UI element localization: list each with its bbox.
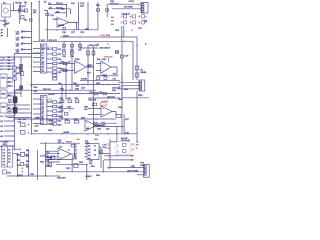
wire y93.6 long — [33, 93, 120, 95]
svg-text:R50 103: R50 103 — [43, 89, 51, 91]
dark blob Q2 — [13, 107, 17, 113]
resistor mid2 — [63, 69, 67, 71]
bottom-right component matrix box — [116, 142, 130, 155]
junction J1 — [13, 10, 15, 12]
svg-text:GND: GND — [138, 95, 143, 97]
wire x7.5 — [7, 28, 9, 37]
wire x72 bottom — [71, 160, 73, 172]
junction J73 — [145, 16, 146, 17]
wire y75.8 — [96, 75, 117, 77]
svg-text:GD: GD — [47, 165, 51, 167]
resistor right x137 b — [135, 73, 139, 77]
matrix cell row2 col1 — [121, 21, 127, 25]
wire y12.8 — [54, 12, 66, 14]
wire net rows left bottom — [4, 116, 14, 146]
small resistor boxes scattered — [18, 9, 138, 168]
junction J19 — [136, 45, 138, 47]
junction J102 — [39, 41, 40, 42]
IC8 right wires — [99, 147, 110, 168]
op-amp U2 mid-left — [75, 61, 87, 74]
IC2 box — [41, 96, 47, 125]
IC2 label box — [48, 99, 51, 102]
junction J104 — [107, 43, 108, 44]
junction J29 — [121, 85, 123, 87]
capacitor grid d — [63, 52, 66, 55]
wire x107 top — [106, 4, 108, 17]
wire opampB out — [86, 66, 94, 68]
junction J74 — [145, 22, 146, 23]
junction J59 — [45, 175, 47, 177]
capacitor y124 b — [102, 124, 105, 127]
wire y123.2 — [96, 122, 117, 124]
svg-text:ULN03: ULN03 — [48, 94, 55, 96]
resistor x88 col — [87, 51, 90, 55]
junction J38 — [13, 130, 14, 131]
op-amp input marks — [58, 20, 109, 158]
junction J35 — [13, 115, 14, 116]
br red marks right — [131, 143, 135, 151]
resistor R-ic2d — [53, 114, 57, 116]
junction J7 — [25, 3, 27, 5]
resistor x93.5 col — [92, 51, 95, 55]
junction J108 — [109, 157, 110, 158]
junction J27 — [82, 84, 84, 86]
junction J33 — [73, 118, 75, 120]
junction J111 — [69, 109, 70, 110]
wire y108.3 — [58, 107, 74, 109]
svg-text:C1 104: C1 104 — [19, 6, 26, 8]
svg-text:EE: EE — [131, 148, 135, 151]
svg-text:BOX: BOX — [3, 144, 8, 146]
junction J21 — [13, 58, 15, 60]
svg-text:IC4A: IC4A — [101, 58, 106, 61]
wire y155.8 arrows — [104, 155, 131, 157]
ground symbol — [3, 25, 7, 28]
wire bus x14 — [14, 54, 16, 151]
connector CN1 top right — [141, 3, 148, 14]
junction J54 — [86, 171, 88, 173]
wire x88 mid — [87, 45, 89, 85]
junction J97 — [28, 166, 29, 167]
resistor bottom mid2 — [74, 164, 78, 168]
wire x86.8 bottom — [86, 164, 88, 180]
junction J61 — [108, 155, 109, 156]
resistor R-ic2b — [53, 105, 57, 107]
wire y126.6 — [96, 126, 124, 128]
wire x21 mid — [20, 57, 22, 97]
resistor R-top1 — [24, 9, 27, 12]
IC1 label box — [48, 47, 51, 50]
resistor opampD in1 — [65, 121, 70, 124]
resistor right x137 — [135, 66, 139, 70]
junction J10 — [31, 43, 33, 45]
resistor between B and C — [89, 65, 93, 67]
wire bus x31.5 — [31, 2, 33, 134]
svg-text:IC2A: IC2A — [53, 18, 58, 21]
wire y98 — [88, 97, 120, 99]
wire y90.2 long — [13, 89, 96, 91]
svg-text:VREF: VREF — [35, 117, 41, 119]
wire left pins upper — [7, 78, 13, 86]
junction J18 — [123, 41, 125, 43]
wire opampE in — [88, 109, 101, 115]
wire IC1 left pins — [33, 49, 40, 72]
wire y167.6 bottom right — [110, 167, 144, 169]
junction J51 — [74, 149, 76, 151]
junction J32 — [61, 118, 63, 120]
svg-text:GND2: GND2 — [17, 175, 24, 177]
capacitor cluster2 a — [61, 100, 64, 103]
resistor bottom left2 — [21, 162, 24, 165]
junction J94 — [28, 150, 29, 151]
resistor R-ic1b — [53, 53, 57, 55]
svg-text:VO: VO — [41, 64, 44, 66]
wire net rows left top — [3, 57, 14, 69]
junction J13 — [24, 37, 25, 38]
svg-text:12R: 12R — [144, 21, 148, 23]
left edge box 2 — [0, 90, 7, 98]
junction J14 — [24, 43, 25, 44]
junction J50 — [62, 142, 64, 144]
junction J55 — [102, 171, 104, 173]
junction J62 — [115, 155, 116, 156]
resistor top x98 — [97, 9, 100, 11]
junction J98 — [28, 175, 29, 176]
junction J9 — [31, 37, 33, 39]
top-right component matrix — [121, 15, 145, 25]
junction J70 — [123, 22, 124, 23]
junction J84 — [93, 47, 94, 48]
svg-text:12V GND: 12V GND — [124, 7, 133, 9]
svg-text:GND: GND — [140, 165, 145, 167]
junction J76 — [93, 84, 95, 86]
junction J23 — [20, 66, 21, 67]
svg-text:C-: C- — [41, 60, 43, 62]
wire x21 top — [20, 2, 22, 11]
junction J8 — [31, 31, 33, 33]
IC1 box — [40, 44, 47, 73]
svg-text:C64 104: C64 104 — [107, 97, 115, 99]
resistor R-ic2e — [53, 119, 57, 121]
svg-text:4.7K R: 4.7K R — [102, 101, 109, 103]
junction J103 — [97, 43, 98, 44]
capacitor below opampC b — [104, 77, 107, 80]
br matrix cell a — [117, 143, 126, 147]
wire opampF out — [71, 148, 76, 160]
resistor IC1 extra row1 — [53, 74, 57, 76]
wire y141.8 stub — [110, 141, 116, 143]
left edge box 1 — [0, 74, 7, 88]
blue text smudges — [0, 1, 147, 180]
wire x124 lower — [123, 114, 125, 134]
junction J16 — [38, 1, 40, 3]
junction J44 — [31, 133, 33, 135]
red box label — [101, 103, 106, 106]
junction J78 — [107, 84, 109, 86]
junction J65 — [107, 97, 108, 98]
svg-text:GND: GND — [5, 23, 10, 25]
wire x47.3 top — [46, 11, 48, 42]
junction J41 — [28, 124, 29, 125]
connector CN3 bottom right — [144, 165, 150, 178]
wire opamp1 out — [69, 22, 78, 29]
resistor bottom mid — [73, 156, 76, 159]
svg-text:1G: 1G — [48, 3, 51, 5]
svg-text:CN5 OUT: CN5 OUT — [110, 4, 120, 6]
junction J107 — [121, 97, 122, 98]
svg-text:LM35: LM35 — [49, 124, 55, 126]
wire x19.7 top res — [19, 5, 21, 24]
svg-text:D5 D6 D7: D5 D6 D7 — [122, 14, 132, 16]
svg-text:+12V 1SW: +12V 1SW — [100, 35, 111, 37]
junction J80 — [111, 80, 112, 81]
wire x122 lower — [121, 75, 123, 100]
wire left pins mid — [7, 93, 30, 109]
svg-text:IC2B: IC2B — [75, 59, 80, 61]
junction J92 — [73, 93, 74, 94]
matrix cell row1 col1 — [121, 15, 127, 19]
capacitor below opampC a — [97, 77, 100, 80]
br matrix cell b — [117, 149, 126, 153]
svg-text:2G: 2G — [49, 7, 52, 9]
svg-text:IN-: IN- — [47, 156, 50, 158]
resistor y93 b — [103, 92, 106, 94]
junction J46 — [73, 133, 75, 135]
capacitor cluster2 d — [65, 113, 68, 116]
wire y41.3 long — [33, 40, 133, 42]
matrix cell row2 col2 — [130, 21, 136, 25]
junction J72 — [138, 22, 139, 23]
junction J57 — [21, 171, 22, 172]
wire y159.6 mid — [45, 159, 72, 161]
junction J28 — [119, 86, 121, 88]
svg-text:+5V: +5V — [76, 139, 80, 141]
svg-text:LM358: LM358 — [101, 75, 108, 77]
junction J39 — [13, 135, 14, 136]
junction J83 — [87, 47, 88, 48]
wire x88 top — [87, 2, 89, 30]
resistor opampE out — [116, 115, 121, 118]
junction J47 — [87, 133, 89, 135]
svg-text:E: E — [121, 21, 123, 25]
svg-text:GND A5V: GND A5V — [57, 177, 66, 180]
resistor left net1 — [20, 123, 25, 127]
resistor R-ic1f — [53, 71, 57, 73]
wire y164.3 — [56, 163, 87, 165]
svg-text:EE: EE — [131, 143, 135, 146]
junction J112 — [65, 108, 66, 109]
junction J91 — [65, 93, 66, 94]
resistor R-top2 — [18, 9, 21, 12]
junction J53 — [86, 164, 88, 166]
wire y37 long — [60, 36, 137, 38]
junction J24 — [31, 65, 33, 67]
junction J88 — [74, 41, 75, 42]
junction J75 — [87, 84, 89, 86]
red arrows bottom — [131, 155, 135, 161]
junction J3 — [56, 29, 58, 31]
resistor left net2 — [20, 131, 25, 135]
resistor R-ic2f — [53, 123, 57, 125]
junction J12 — [24, 31, 25, 32]
wire x15 blobs — [14, 90, 16, 115]
wire y8.8 — [48, 9, 70, 14]
svg-text:IC6B: IC6B — [49, 121, 54, 123]
junction J90 — [79, 36, 80, 37]
svg-text:LM358: LM358 — [58, 25, 65, 27]
wire y8 to connector CN1 — [112, 8, 141, 10]
resistor near opamp1 — [63, 27, 66, 29]
wire y117.5 — [7, 117, 32, 119]
svg-text:ACMP: ACMP — [63, 131, 70, 134]
wire opampC out — [111, 67, 117, 75]
wire x72 mid — [71, 60, 73, 90]
wire opampD out — [96, 125, 104, 127]
resistor on x47.3 — [46, 13, 49, 16]
resistor R-ic1e — [53, 67, 57, 69]
junction J110 — [85, 153, 86, 154]
svg-text:VOUT: VOUT — [129, 1, 135, 3]
junction J79 — [95, 80, 96, 81]
junction J5 — [31, 3, 33, 5]
wire x122 right — [121, 41, 123, 134]
junction J69 — [138, 16, 139, 17]
junction J36 — [13, 120, 14, 121]
wire y57 — [15, 56, 32, 58]
wire y10.5 stub — [44, 10, 47, 12]
dark part left1 — [20, 64, 23, 67]
resistor R-ic2c — [53, 110, 57, 112]
svg-text:R55 B: R55 B — [66, 141, 72, 143]
junction J4 — [73, 29, 75, 31]
junction J89 — [63, 36, 64, 37]
resistor opampE in — [92, 103, 96, 106]
junction J63 — [93, 93, 95, 95]
opto coupler box — [1, 4, 10, 17]
resistor R-top4 — [29, 19, 32, 21]
wire bottom left box pins — [13, 149, 21, 177]
resistor R-top3 — [21, 16, 24, 19]
wire x78 top — [77, 2, 79, 30]
resistor bottom rows a — [48, 157, 52, 159]
junction J67 — [123, 16, 124, 17]
IC8 left pins — [85, 139, 111, 172]
svg-text:LM: LM — [86, 128, 89, 130]
wire x133 right — [132, 41, 134, 80]
junction J26 — [69, 89, 71, 91]
svg-text:AGND: AGND — [81, 78, 87, 81]
svg-text:GN: GN — [41, 71, 45, 73]
junction J11 — [31, 49, 33, 51]
svg-text:R12 1K: R12 1K — [56, 3, 63, 5]
IC8 box bottom mid — [87, 144, 99, 160]
junction J71 — [130, 22, 131, 23]
junction J58 — [21, 175, 22, 176]
resistor IC1 extra row2 — [53, 78, 57, 80]
svg-text:VCC: VCC — [41, 40, 46, 42]
junction J37 — [13, 125, 14, 126]
junction J86 — [116, 133, 117, 134]
magenta junction dots — [3, 1, 147, 177]
wire x117 lower — [116, 127, 118, 142]
junction J45 — [61, 133, 63, 135]
junction J87 — [65, 41, 66, 42]
op-amp U6 bottom — [58, 148, 71, 160]
wire opto bottom — [4, 17, 6, 24]
wire x45.5 bottom — [45, 143, 47, 176]
resistor R-ic1c — [53, 58, 57, 60]
junction J43 — [31, 119, 33, 121]
wire x74.5 bottom — [74, 143, 76, 158]
junction J99 — [45, 175, 46, 176]
wire y143.2 — [40, 142, 80, 144]
wire conn3 stubs — [137, 174, 144, 176]
transistor Q5 circle — [44, 154, 47, 157]
op-amp U3 mid-right — [101, 61, 111, 73]
junction J30 — [13, 96, 15, 98]
wire x110 bottom — [109, 139, 111, 168]
junction J66 — [137, 141, 139, 143]
wire bottom rows mid — [46, 153, 61, 166]
capacitor grid b — [71, 45, 74, 48]
wire y70 stub — [60, 70, 74, 72]
wire x93.5 mid — [93, 45, 95, 134]
dark cap component — [20, 86, 23, 90]
junction J82 — [45, 142, 47, 144]
capacitor grid a — [63, 45, 66, 48]
opto transistor circle — [3, 8, 8, 13]
svg-text:PANEL: PANEL — [140, 71, 147, 74]
junction J60 — [20, 149, 21, 150]
op-amp U1 top — [57, 18, 69, 28]
resistor mid1 — [63, 62, 67, 64]
bottom left big box — [2, 146, 13, 167]
resistor R-ic1a — [53, 48, 57, 50]
resistor bottom left1 — [21, 152, 25, 156]
capacitor cluster2 c — [76, 100, 79, 103]
wire opampF feed — [46, 151, 59, 157]
junction J95 — [28, 155, 29, 156]
wire grid verticals mid-top — [64, 41, 80, 60]
junction J101 — [47, 10, 48, 11]
junction J109 — [85, 146, 86, 147]
matrix cell row2 col3 — [139, 21, 145, 25]
wire x98 top — [97, 2, 99, 30]
capacitor cluster2 b — [68, 100, 71, 103]
junction J25 — [62, 89, 64, 91]
red labels — [25, 17, 140, 170]
left edge box 3 — [0, 103, 7, 113]
wire y171.8 bottom long — [56, 171, 144, 173]
resistor bottom opampF area — [51, 156, 55, 159]
wire rows y31.5-47.5 — [22, 32, 32, 50]
wire y176 bottom left — [7, 175, 60, 177]
junction J81 — [116, 75, 117, 76]
svg-text:VCC2: VCC2 — [63, 36, 69, 38]
wire y66 stub — [60, 63, 74, 65]
wire x66 ext — [65, 85, 67, 100]
bottom left small box — [3, 170, 7, 174]
wire x13.6 cap top — [13, 2, 15, 11]
wire y133.8 long — [32, 133, 138, 135]
svg-text:R22 4.7K: R22 4.7K — [49, 40, 58, 42]
svg-text:AGND: AGND — [86, 175, 92, 178]
wire y113 — [7, 112, 32, 114]
wire x62 mid — [61, 85, 63, 119]
op-amp U4 lower-mid — [85, 120, 96, 131]
resistor chain left mid — [13, 66, 16, 80]
matrix cell row1 col2 — [130, 15, 136, 19]
